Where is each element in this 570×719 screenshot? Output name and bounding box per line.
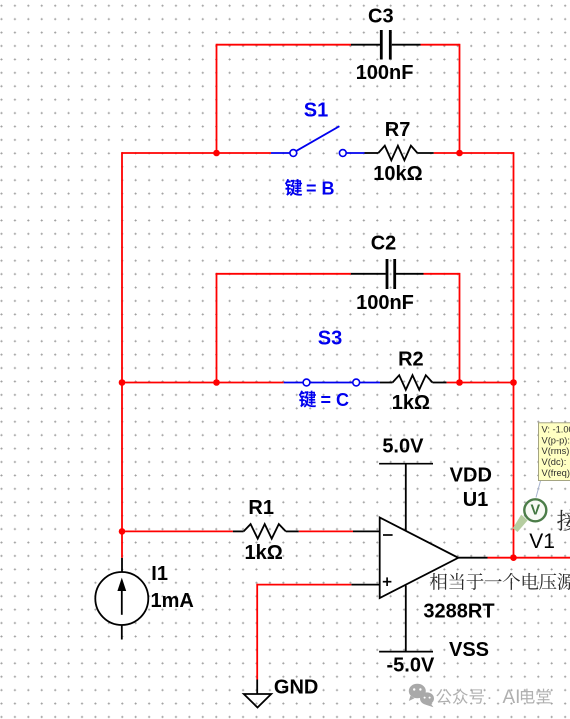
wire GND vertical red (256, 584, 258, 680)
resistor R1 (233, 497, 299, 564)
wire R1 to op-amp red segment (299, 530, 353, 532)
svg-text:3288RT: 3288RT (423, 601, 494, 623)
probe V1 (513, 499, 555, 553)
node junction row2/left bus (119, 379, 126, 386)
wire op-amp non-inverting input stub (351, 584, 379, 586)
svg-text:V(freq): V(freq) (542, 468, 570, 478)
svg-text:V1: V1 (529, 530, 555, 553)
label key = B for S1 (285, 178, 335, 198)
svg-text:1mA: 1mA (151, 590, 194, 612)
svg-text:R2: R2 (398, 349, 424, 371)
svg-text:V: V (530, 503, 540, 519)
svg-text:S1: S1 (304, 100, 328, 122)
wire C2 top-right horizontal (424, 273, 460, 275)
svg-text:10kΩ: 10kΩ (373, 163, 422, 185)
svg-text:V(p-p):: V(p-p): (542, 435, 570, 445)
capacitor C3 (351, 6, 421, 85)
svg-text:V(rms):: V(rms): (542, 446, 570, 456)
wire C2 right vertical (459, 273, 461, 383)
switch S3 (closed) (284, 328, 380, 386)
wire row1 left red segment (122, 152, 271, 154)
svg-text:U1: U1 (463, 489, 489, 511)
wire C3 right vertical (459, 44, 461, 153)
svg-text:V(dc):: V(dc): (542, 457, 567, 467)
svg-text:100nF: 100nF (356, 62, 414, 84)
svg-text:VSS: VSS (449, 639, 489, 661)
svg-text:= B: = B (306, 178, 335, 198)
svg-text:100nF: 100nF (356, 292, 414, 314)
wire output red to right edge (488, 557, 570, 559)
annotation equivalent voltage source (430, 573, 570, 590)
wire op-amp inverting input stub (353, 530, 380, 532)
capacitor C2 (351, 233, 424, 315)
op-amp U1 (379, 436, 494, 677)
svg-text:C2: C2 (371, 233, 397, 255)
svg-text:5.0V: 5.0V (382, 436, 424, 458)
node junction row1/C3 right (456, 150, 463, 157)
node junction row2/C2 right (456, 379, 463, 386)
wire right bus vertical (513, 152, 515, 558)
watermark logo (409, 684, 434, 708)
probe V1 measurement box (539, 423, 570, 481)
svg-text:S3: S3 (318, 328, 342, 350)
node junction row1/C3 left (213, 150, 220, 157)
node junction row2/C2 left (213, 379, 220, 386)
svg-text:-5.0V: -5.0V (386, 655, 434, 677)
wire C2 top-left horizontal (217, 273, 351, 275)
svg-text:1kΩ: 1kΩ (392, 392, 430, 414)
node junction output/right bus (510, 554, 517, 561)
current source I1 (95, 558, 194, 640)
svg-text:R1: R1 (248, 497, 274, 519)
node junction row2/right bus (510, 379, 517, 386)
svg-text:GND: GND (274, 677, 318, 699)
ground (244, 677, 319, 708)
wire C2 left vertical (216, 273, 218, 383)
svg-text:1kΩ: 1kΩ (245, 542, 283, 564)
wire row2 right red segment (447, 382, 514, 384)
wire C3 left vertical (216, 44, 218, 153)
wire row2 left red segment (122, 382, 284, 384)
svg-text:AI: AI (503, 687, 521, 708)
wire R1 row left red segment (122, 530, 233, 532)
resistor R2 (380, 349, 447, 415)
svg-text:VDD: VDD (450, 465, 492, 487)
node junction left bus / R1 row (119, 528, 126, 535)
svg-text:R7: R7 (385, 119, 411, 141)
svg-text:C3: C3 (368, 6, 394, 28)
annotation clipped character at right edge (557, 510, 570, 531)
wire + input horizontal red (257, 584, 351, 586)
switch S1 (271, 100, 365, 157)
wire op-amp output black stub (458, 557, 487, 559)
svg-text:·: · (487, 688, 493, 707)
label key = C for S3 (299, 390, 349, 410)
resistor R7 (365, 119, 434, 185)
wire left bus vertical (121, 152, 123, 558)
svg-text:I1: I1 (151, 563, 168, 585)
wire C3 top-left horizontal (217, 44, 352, 46)
wire C3 top-right horizontal (421, 44, 460, 46)
watermark text (436, 687, 550, 708)
probe V1 connector line (536, 481, 541, 498)
wire row1 right red segment (434, 152, 514, 154)
svg-text:V: -1.00: V: -1.00 (542, 425, 570, 435)
svg-text:= C: = C (321, 390, 350, 410)
